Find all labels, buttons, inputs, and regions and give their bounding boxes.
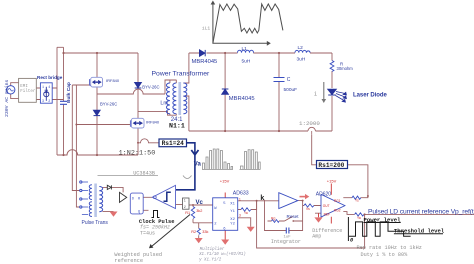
svg-text:Rg: Rg bbox=[271, 217, 275, 221]
svg-text:Rep rate 10Hz to 1kHz: Rep rate 10Hz to 1kHz bbox=[357, 245, 422, 251]
svg-text:L1: L1 bbox=[242, 46, 248, 52]
svg-text:D: D bbox=[132, 197, 134, 201]
svg-text:1uF: 1uF bbox=[284, 236, 292, 240]
svg-text:3: 3 bbox=[239, 214, 241, 218]
svg-text:BYV-26C: BYV-26C bbox=[142, 84, 159, 89]
svg-text:k: k bbox=[260, 195, 264, 203]
svg-text:Pulse Trans: Pulse Trans bbox=[82, 220, 109, 226]
svg-text:Y2: Y2 bbox=[230, 223, 235, 227]
svg-text:1:2000: 1:2000 bbox=[299, 120, 320, 127]
svg-text:Q: Q bbox=[138, 210, 140, 214]
svg-text:Filter: Filter bbox=[20, 89, 36, 94]
svg-text:IRF840: IRF840 bbox=[106, 78, 120, 83]
svg-text:Power Transformer: Power Transformer bbox=[152, 71, 211, 78]
svg-text:Laser Diode: Laser Diode bbox=[353, 92, 388, 98]
svg-text:AD620: AD620 bbox=[316, 191, 332, 197]
svg-text:Amp: Amp bbox=[312, 233, 321, 239]
svg-text:X1: X1 bbox=[230, 202, 235, 206]
svg-text:R1: R1 bbox=[185, 211, 190, 215]
svg-text:iL1: iL1 bbox=[202, 26, 211, 32]
svg-text:3uH: 3uH bbox=[297, 57, 306, 63]
svg-text:REF: REF bbox=[324, 213, 330, 217]
svg-text:Ya: Ya bbox=[244, 211, 248, 215]
svg-text:X2: X2 bbox=[230, 218, 235, 222]
svg-text:1: 1 bbox=[239, 197, 241, 201]
svg-text:L2: L2 bbox=[298, 45, 304, 51]
svg-text:Ys: Ys bbox=[355, 199, 359, 203]
svg-text:Reset: Reset bbox=[287, 214, 300, 219]
svg-text:2: 2 bbox=[184, 206, 186, 210]
svg-text:Rect bridge: Rect bridge bbox=[37, 75, 63, 80]
svg-text:BYV-26C: BYV-26C bbox=[100, 102, 117, 107]
svg-text:i: i bbox=[314, 91, 317, 97]
svg-text:Power level: Power level bbox=[364, 216, 402, 223]
svg-text:X1.Y1/10 w=(+R2/R1): X1.Y1/10 w=(+R2/R1) bbox=[198, 252, 246, 257]
svg-text:MBR4045: MBR4045 bbox=[229, 96, 255, 102]
svg-text:EMI: EMI bbox=[20, 85, 28, 89]
svg-text:2: 2 bbox=[48, 100, 50, 104]
svg-text:Integrator: Integrator bbox=[271, 239, 301, 245]
svg-text:Duty 1 % to 80%: Duty 1 % to 80% bbox=[361, 252, 409, 258]
svg-text:Lm: Lm bbox=[160, 101, 168, 107]
svg-text:reference: reference bbox=[114, 258, 143, 264]
svg-text:R2: R2 bbox=[191, 230, 196, 234]
svg-text:RG2: RG2 bbox=[334, 209, 341, 213]
svg-text:3k2: 3k2 bbox=[196, 209, 202, 213]
svg-text:33k: 33k bbox=[202, 230, 208, 234]
svg-text:Ya: Ya bbox=[357, 216, 361, 220]
svg-text:C: C bbox=[287, 77, 291, 83]
svg-text:Rs1=200: Rs1=200 bbox=[318, 162, 344, 169]
svg-text:30mohm: 30mohm bbox=[337, 66, 354, 71]
svg-text:N1:1: N1:1 bbox=[169, 122, 185, 129]
svg-text:AD633: AD633 bbox=[233, 190, 249, 196]
svg-text:OUT: OUT bbox=[323, 204, 330, 208]
svg-text:Y1: Y1 bbox=[230, 210, 235, 214]
svg-text:1: 1 bbox=[184, 200, 186, 204]
svg-text:IRF840: IRF840 bbox=[146, 120, 160, 125]
svg-text:MBR4045: MBR4045 bbox=[192, 59, 218, 65]
svg-text:Vc: Vc bbox=[196, 200, 204, 206]
svg-text:Multiplier: Multiplier bbox=[200, 247, 225, 252]
svg-text:Va: Va bbox=[194, 161, 202, 167]
svg-text:4: 4 bbox=[48, 86, 50, 90]
svg-text:Pulsed LD current reference Vp: Pulsed LD current reference Vp_ref(t) bbox=[368, 208, 474, 215]
svg-text:T=4us: T=4us bbox=[140, 230, 155, 236]
svg-text:+15V: +15V bbox=[327, 178, 337, 183]
svg-text:1:N2:1:50: 1:N2:1:50 bbox=[119, 149, 156, 157]
svg-text:1: 1 bbox=[42, 86, 44, 90]
svg-text:Threshold level: Threshold level bbox=[394, 228, 445, 235]
svg-text:y X1.Y1/2: y X1.Y1/2 bbox=[198, 257, 222, 262]
svg-text:+15V: +15V bbox=[220, 178, 230, 183]
svg-text:Vs: Vs bbox=[306, 207, 310, 211]
svg-text:Bulk Cap: Bulk Cap bbox=[66, 82, 72, 103]
svg-text:Rs1=24: Rs1=24 bbox=[162, 140, 185, 147]
svg-text:RG1: RG1 bbox=[334, 199, 341, 203]
svg-text:500uF: 500uF bbox=[284, 87, 298, 93]
svg-text:230V AC mains: 230V AC mains bbox=[4, 79, 10, 117]
svg-text:3: 3 bbox=[42, 100, 44, 104]
svg-text:UC3843B: UC3843B bbox=[133, 170, 155, 176]
svg-text:5uH: 5uH bbox=[242, 58, 251, 64]
